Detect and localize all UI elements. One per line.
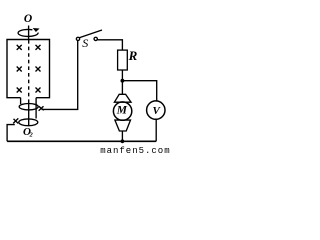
rotation axis (dashed) [28,40,30,100]
svg-text:O: O [24,13,32,25]
field mark x row1 right [36,45,41,50]
field mark x row3 left [17,88,22,93]
switch S contact left [76,37,79,40]
brush 1 [39,106,44,111]
wire: switch to resistor top corner [97,40,122,50]
field mark x row1 left [17,45,22,50]
node: top junction dot [121,79,125,83]
switch S contact right [94,37,97,40]
wire: resistor to top junction [121,70,123,81]
shaft top [28,26,30,41]
coil lead right [35,98,37,119]
svg-text:2: 2 [29,131,34,138]
wire: bottom rail [7,140,156,142]
wire: voltmeter to bottom rail [155,119,157,141]
switch S lever [80,30,102,38]
coil lead left [20,98,22,104]
field mark x row2 left [17,67,22,72]
brush 2 [13,118,18,123]
svg-text:M: M [116,104,128,116]
resistor R [118,50,128,70]
rotation arrow top [18,29,38,36]
wire: motor to bottom junction [121,131,123,141]
motor M brush bottom (trapezoid) [115,120,131,131]
magnetic field region (coil frame) [7,40,50,98]
motor M brush top (trapezoid) [114,94,131,102]
svg-text:manfen5.com: manfen5.com [100,146,170,156]
wire: top rail to voltmeter [122,81,156,101]
slip ring 2 [19,119,38,126]
motor M body [113,102,131,120]
field mark x row2 right [36,67,41,72]
voltmeter V body [147,101,165,119]
wire: junction down to motor [121,81,123,95]
svg-text:V: V [153,105,162,117]
wire: brush1 to switch riser [42,41,78,110]
wire: brush2 to bottom rail [7,125,15,142]
svg-text:S: S [82,36,88,50]
slip ring 1 [19,104,38,110]
shaft lower [28,100,30,126]
node: bottom junction dot [121,139,125,143]
svg-text:R: R [128,48,138,63]
field mark x row3 right [36,88,41,93]
